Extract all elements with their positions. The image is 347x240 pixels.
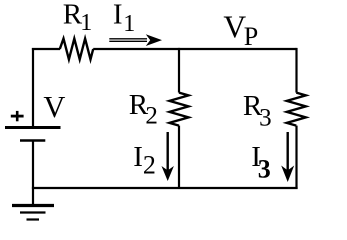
svg-text:3: 3	[258, 155, 271, 184]
svg-text:P: P	[244, 22, 258, 51]
battery V positive plate (long)	[5, 126, 61, 129]
wire: right branch from top-right corner down to R3	[295, 48, 297, 93]
svg-text:I: I	[133, 141, 143, 173]
label R2	[129, 89, 158, 129]
wire: middle branch from R2 down to bottom wire	[178, 126, 180, 189]
current arrow I1 (shaft, double line)	[109, 39, 147, 42]
label I3	[251, 141, 271, 184]
resistor R1	[60, 39, 93, 60]
ground symbol	[12, 206, 54, 220]
label R3	[243, 90, 272, 131]
label I2	[133, 141, 156, 179]
wire: left vertical from top-left corner down to battery positive plate	[32, 48, 34, 127]
current arrow I3 head	[281, 166, 294, 183]
resistor R2	[170, 93, 189, 126]
current arrow I2 head	[162, 166, 174, 181]
svg-text:3: 3	[259, 105, 272, 132]
current arrow I1 head	[146, 34, 162, 46]
svg-text:I: I	[113, 0, 123, 31]
current arrow I2 shaft	[166, 132, 168, 172]
node VP label	[223, 10, 258, 51]
label I1	[113, 0, 135, 37]
current arrow I3 shaft	[287, 132, 289, 172]
wire: right branch from R3 down to bottom-right corner	[295, 126, 297, 189]
resistor R3	[287, 93, 306, 126]
wire: middle branch from top wire down to R2	[178, 48, 180, 93]
wire: from battery negative plate down to ground	[32, 141, 34, 206]
svg-text:2: 2	[145, 103, 158, 130]
wire: top horizontal, left segment from corner to R1	[32, 48, 60, 50]
svg-text:1: 1	[123, 11, 135, 37]
battery plus sign	[11, 111, 24, 121]
svg-text:2: 2	[143, 150, 156, 179]
label V (source)	[43, 90, 65, 124]
svg-text:V: V	[43, 90, 65, 124]
svg-text:1: 1	[80, 10, 92, 36]
label R1	[63, 0, 93, 36]
wire: bottom horizontal from battery branch to bottom-right corner	[32, 187, 298, 189]
battery V negative plate (short)	[20, 139, 45, 141]
wire: top horizontal from R1 to right corner (node VP)	[93, 48, 296, 50]
